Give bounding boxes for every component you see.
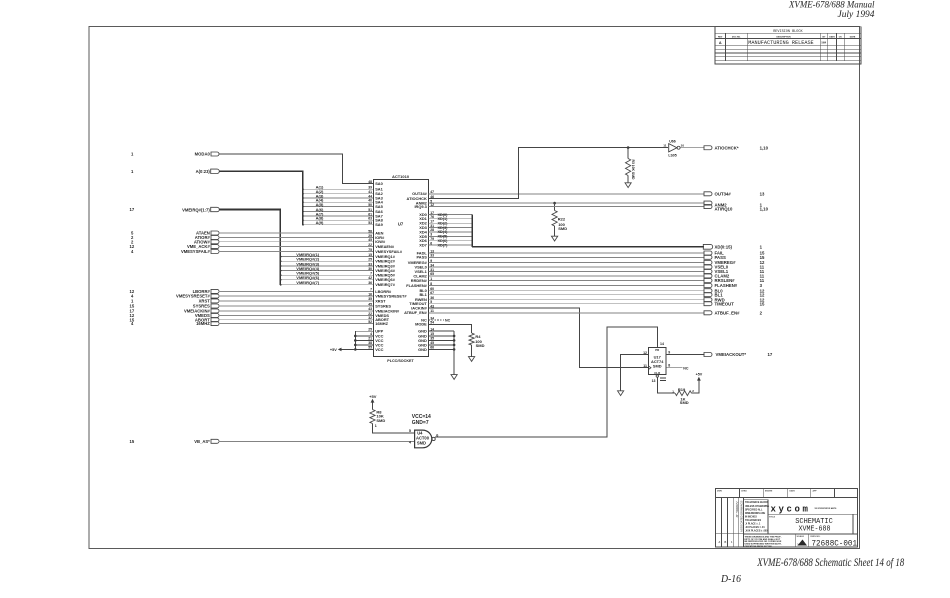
wire SYSRES xyxy=(218,305,373,307)
svg-text:1,10: 1,10 xyxy=(760,145,769,150)
U7 pin 36 RWEN xyxy=(415,296,434,302)
svg-text:11: 11 xyxy=(643,364,647,368)
U7 pin 54 MODE xyxy=(415,321,434,327)
wire A(5) xyxy=(302,202,373,208)
svg-text:SPECIFIED ALL: SPECIFIED ALL xyxy=(745,508,763,511)
svg-text:VMESYSFAIL#: VMESYSFAIL# xyxy=(181,249,211,254)
svg-text:TITLE: TITLE xyxy=(769,517,776,519)
svg-text:DESCRIPTION: DESCRIPTION xyxy=(776,36,791,38)
wire VSEL1 to port xyxy=(429,269,765,274)
svg-text:45: 45 xyxy=(368,238,372,242)
port VMEIACKIN# xyxy=(130,308,220,313)
svg-text:IN INCHES: IN INCHES xyxy=(745,516,757,518)
svg-text:1: 1 xyxy=(731,541,733,544)
U7 pin 52 16MHZ xyxy=(368,320,388,326)
svg-text:1: 1 xyxy=(760,244,763,249)
wire VMEREG# to port xyxy=(429,260,765,265)
wire VME_ACK# xyxy=(218,246,373,248)
wire VMEIRQ#(4) xyxy=(280,266,373,272)
wire VMEIRQ#(2) xyxy=(280,257,373,262)
U7 pin 39 SA1 xyxy=(368,186,383,192)
svg-text:15: 15 xyxy=(760,301,765,306)
wire ATIOW# xyxy=(218,241,373,243)
svg-text:22: 22 xyxy=(368,243,372,247)
ground below D input xyxy=(618,391,624,396)
wire VMEIRQ#(1) xyxy=(280,252,373,258)
U7 pin 17 XD2 xyxy=(419,220,434,226)
svg-text:XX.XX/XXXXXX 48/76: XX.XX/XXXXXX 48/76 xyxy=(815,507,838,510)
svg-text:1,10: 1,10 xyxy=(760,207,769,212)
svg-text:MODE: MODE xyxy=(415,322,427,327)
wire TIMEOUT to port xyxy=(429,301,765,306)
svg-text:XVME-678/688 Manual: XVME-678/688 Manual xyxy=(788,1,875,11)
resistor R8 pull-up xyxy=(370,409,386,428)
svg-text:1: 1 xyxy=(131,152,134,157)
wire MODE to R4 xyxy=(429,324,472,333)
wire A(6) xyxy=(302,207,373,213)
svg-text:1=1: 1=1 xyxy=(797,543,802,547)
svg-text:ATBUF_EN#: ATBUF_EN# xyxy=(404,310,427,315)
svg-text:IRQ9.3: IRQ9.3 xyxy=(414,204,427,209)
op IC U7 ACT1010 xyxy=(373,174,428,363)
wire VMEIRQ#(6) xyxy=(280,275,373,280)
svg-text:2: 2 xyxy=(760,310,763,315)
resistor R3 pulldown xyxy=(626,148,635,183)
svg-text:NC: NC xyxy=(683,366,689,370)
U7 pin 35 XRST xyxy=(368,297,386,303)
svg-text:DIMENSIONS ARE: DIMENSIONS ARE xyxy=(745,512,766,515)
svg-text:1: 1 xyxy=(131,169,134,174)
U7 pin 9 VMEREG# xyxy=(408,259,433,265)
U7 pin 25 UPP xyxy=(368,328,383,334)
U7 pin 33 PASS xyxy=(416,254,434,260)
U7 pin 31 VSEL1 xyxy=(414,268,434,274)
svg-text:SMD: SMD xyxy=(558,226,567,231)
U7 pin 7 VMEIRQ5# xyxy=(370,272,396,278)
U7 pin 25 VMEIRQ2# xyxy=(368,258,395,264)
svg-text:VMEIRQ#(1:7): VMEIRQ#(1:7) xyxy=(182,207,210,212)
U7 pin 45 IOW# xyxy=(368,238,386,244)
U7 pin 45 GND xyxy=(418,341,434,347)
svg-text:.XX PLACES ± .01: .XX PLACES ± .01 xyxy=(745,526,765,529)
svg-text:SMD: SMD xyxy=(376,418,385,423)
NAND gate U4 ACT00 xyxy=(409,429,438,448)
svg-text:XD7: XD7 xyxy=(419,242,427,247)
svg-text:51: 51 xyxy=(368,208,372,212)
wire OUT34# to port xyxy=(429,191,765,196)
svg-text:1: 1 xyxy=(375,424,377,428)
svg-text:16: 16 xyxy=(368,292,372,296)
svg-text:SMD: SMD xyxy=(653,363,662,368)
svg-text:17: 17 xyxy=(768,352,773,357)
svg-text:XD(0:15): XD(0:15) xyxy=(715,244,733,249)
wire U17 Q to port VMEIACKOUT* xyxy=(666,352,773,357)
svg-text:DWN: DWN xyxy=(717,491,722,493)
svg-text:DATE: DATE xyxy=(790,490,796,493)
port ABORT xyxy=(130,317,220,322)
wire VMEIRQ#(5) xyxy=(280,271,373,277)
svg-text:SMD: SMD xyxy=(680,400,689,405)
svg-text:B: B xyxy=(725,541,727,544)
svg-text:VCC=14: VCC=14 xyxy=(412,414,431,420)
svg-text:+5V: +5V xyxy=(369,394,377,399)
wire R8 to U4 input 5 xyxy=(373,424,415,434)
bus A(0:23) port and breakout xyxy=(131,169,303,225)
wire ATIOR# xyxy=(218,237,373,239)
svg-text:+5V: +5V xyxy=(696,373,703,377)
svg-text:10: 10 xyxy=(681,144,685,148)
U7 pin 63 SA8 xyxy=(368,217,383,223)
U7 pin 43 VMEIACKIN# xyxy=(368,307,400,313)
U7 pin 40 SA4 xyxy=(368,199,383,205)
svg-text:TOLERANCE BLOCK: TOLERANCE BLOCK xyxy=(745,501,769,504)
inverter U66 LS05 xyxy=(663,140,704,158)
svg-text:25: 25 xyxy=(368,258,372,262)
U7 pin 28 XD4 xyxy=(419,228,434,234)
U7 pin 12 IRQ9.3 xyxy=(414,203,434,209)
svg-text:13: 13 xyxy=(760,191,765,196)
svg-text:R19: R19 xyxy=(678,387,686,392)
bus XD(0:15) xyxy=(429,213,763,250)
U7 pin 45 SYSRES xyxy=(368,302,391,308)
svg-text:ACT1010: ACT1010 xyxy=(392,174,410,179)
svg-text:BY: BY xyxy=(822,36,826,38)
U7 pin 43 IACKIN# xyxy=(411,304,434,310)
U7 pin 30 VMEIRQ4# xyxy=(368,267,395,273)
wire VMESYSRESET# xyxy=(218,295,373,297)
wire ATIRQ10 to port xyxy=(429,205,769,212)
svg-text:42: 42 xyxy=(368,276,372,280)
svg-text:50: 50 xyxy=(368,203,372,207)
svg-text:REV: REV xyxy=(718,36,723,38)
svg-text:LS05: LS05 xyxy=(668,153,676,157)
svg-text:GND: GND xyxy=(418,347,427,352)
svg-text:XD(4): XD(4) xyxy=(438,230,449,234)
U7 pin 61 SA7 xyxy=(368,212,383,218)
wire VMEIACKIN# xyxy=(218,310,373,312)
U7 pin 31 XD3 xyxy=(419,224,434,230)
wire ATIOCHCK to inverter U66 xyxy=(429,146,668,198)
svg-text:+5V: +5V xyxy=(330,348,337,352)
ground below R3 xyxy=(625,183,631,188)
U7 pin 58 AEN xyxy=(368,229,383,235)
svg-text:A(9): A(9) xyxy=(316,220,324,225)
U7 pin 50 SA5 xyxy=(368,203,383,209)
svg-text:SA0: SA0 xyxy=(375,181,383,186)
U7 pin 55 VCC xyxy=(368,346,383,352)
svg-text:PLCC/SOCKET: PLCC/SOCKET xyxy=(387,359,414,363)
svg-text:72688C-D: 72688C-D xyxy=(734,501,738,517)
U7 pin 76 XD1 xyxy=(419,215,434,221)
svg-text:.X PLACE ± .1: .X PLACE ± .1 xyxy=(745,523,761,526)
svg-text:7: 7 xyxy=(370,272,372,276)
U7 pin 15 VMEIRQ1# xyxy=(368,253,395,259)
svg-text:33: 33 xyxy=(368,262,372,266)
wire BL1 to port xyxy=(429,292,765,297)
svg-text:XD(1): XD(1) xyxy=(438,217,449,221)
U7 pin 67 BL1 xyxy=(419,291,434,297)
U7 pin 17 XD0 xyxy=(419,211,434,217)
svg-text:16MHZ: 16MHZ xyxy=(196,321,210,326)
U7 pin 11 ATBUF_EN# xyxy=(404,309,434,315)
port ATIOW# xyxy=(131,239,219,244)
port VMEDS xyxy=(130,313,220,318)
svg-text:4: 4 xyxy=(131,249,134,254)
svg-text:ORIZATION FROM XYCOM.: ORIZATION FROM XYCOM. xyxy=(745,545,773,548)
U7 pin 22 VMEDS xyxy=(368,312,389,318)
svg-text:ATIRQ10: ATIRQ10 xyxy=(715,207,733,212)
wire BL0 to port xyxy=(429,288,765,293)
ground symbol below GND bracket xyxy=(451,375,457,380)
svg-text:53: 53 xyxy=(368,221,372,225)
wire A(4) xyxy=(302,198,373,204)
U7 pin 66 GND xyxy=(418,346,434,352)
wire U17 CLR to R19 xyxy=(657,377,675,393)
net tie marker xyxy=(660,378,666,380)
svg-text:ATBUF_EN#: ATBUF_EN# xyxy=(715,310,741,315)
wire FLASHEN# to port xyxy=(429,283,763,288)
U7 pin 3 XD5 xyxy=(419,233,432,239)
U7 pin 42 VMEIRQ6# xyxy=(368,276,395,282)
svg-text:A: A xyxy=(719,41,722,45)
svg-text:45: 45 xyxy=(368,302,372,306)
+5V supply to U7 VCC pins xyxy=(330,331,373,352)
U7 pin 34 VSEL0 xyxy=(414,263,434,269)
port VB_AS* xyxy=(130,439,220,444)
svg-text:14: 14 xyxy=(660,342,664,346)
wire LBORR# xyxy=(218,290,373,292)
svg-text:ASSOCIATED DRAWINGS: ASSOCIATED DRAWINGS xyxy=(740,500,744,532)
svg-text:XD(7): XD(7) xyxy=(438,243,449,247)
U7 pin 44 SA3 xyxy=(368,194,383,200)
svg-text:R3 10K SMD: R3 10K SMD xyxy=(631,160,635,181)
U7 pin 14 GND xyxy=(418,327,434,333)
port MODA0 and wire to U7 pin SA0 xyxy=(131,152,373,184)
U7 pin 5 ANM2 xyxy=(416,199,433,205)
svg-text:MANUFACTURING RELEASE: MANUFACTURING RELEASE xyxy=(748,40,813,46)
svg-text:.XXX PLACES ± .005: .XXX PLACES ± .005 xyxy=(745,530,768,533)
svg-text:15: 15 xyxy=(130,439,135,444)
wire RWD to port xyxy=(429,297,765,302)
svg-text:REVISION BLOCK: REVISION BLOCK xyxy=(773,30,803,34)
U7 pin 79 XD6 xyxy=(419,237,434,243)
port ATAEN xyxy=(131,230,219,235)
svg-text:U7: U7 xyxy=(398,222,404,227)
wire ANM2 to port xyxy=(429,201,763,207)
U7 pin 13 FADL xyxy=(417,249,435,255)
U7 pin 41 SA2 xyxy=(368,190,383,196)
port VME_ACK# xyxy=(130,244,220,249)
U17 Q-bar no connect xyxy=(666,366,689,370)
svg-text:SMD: SMD xyxy=(476,343,485,348)
svg-text:17: 17 xyxy=(130,207,135,212)
svg-text:DWG NO.: DWG NO. xyxy=(811,536,821,538)
svg-text:ENGRN: ENGRN xyxy=(765,491,773,493)
port VMESYSFAIL# xyxy=(131,249,219,254)
svg-text:TIMEOUT: TIMEOUT xyxy=(715,301,735,306)
U7 pin 29 IOR# xyxy=(368,234,385,240)
resistor R4 xyxy=(469,333,485,357)
svg-text:DATE: DATE xyxy=(829,35,835,38)
svg-text:SMD: SMD xyxy=(417,440,426,445)
wire VMEIRQ#(3) xyxy=(280,261,373,267)
svg-text:xycom: xycom xyxy=(771,505,811,515)
svg-text:52: 52 xyxy=(368,320,372,324)
wire A(3) xyxy=(302,193,373,199)
ground below R4 xyxy=(469,357,475,362)
U7 pin 22 VMEAEN# xyxy=(368,243,395,249)
U7 pin 33 VMEIRQ3# xyxy=(368,262,395,268)
svg-text:30: 30 xyxy=(368,267,372,271)
port VMESYSRESET# xyxy=(131,294,219,299)
svg-text:U66: U66 xyxy=(669,140,675,144)
svg-text:APP: APP xyxy=(813,490,818,493)
wire FAIL to port xyxy=(429,251,765,256)
wire U4 output to U17 preset xyxy=(435,327,657,437)
resistor R19 xyxy=(672,387,694,405)
title block xyxy=(716,489,858,547)
wire U17 D input to ground xyxy=(621,355,649,391)
svg-text:A: A xyxy=(719,541,721,544)
svg-text:CHKD: CHKD xyxy=(741,491,747,493)
wire VSEL0 to port xyxy=(429,265,765,270)
wire A(2) xyxy=(302,189,373,195)
svg-text:UNLESS OTHERWISE: UNLESS OTHERWISE xyxy=(745,506,770,508)
svg-text:5/94: 5/94 xyxy=(822,42,827,45)
U7 pin 75 VMESYSFAIL# xyxy=(368,248,403,254)
port SYSRES xyxy=(130,303,220,308)
U7 pin 4 VCC xyxy=(370,332,383,338)
svg-text:A(0:23): A(0:23) xyxy=(196,169,211,174)
U7 pin 7 LBORR# xyxy=(370,288,392,294)
U7 pin 65 CLAM2 xyxy=(413,272,434,278)
bus VMEIRQ#(1:7) port xyxy=(130,207,281,285)
port XRST xyxy=(131,298,219,303)
svg-text:58: 58 xyxy=(368,229,372,233)
svg-text:D-16: D-16 xyxy=(720,574,741,585)
wire ATAEN xyxy=(218,232,373,234)
U7 pin 38 VCC xyxy=(368,341,383,347)
svg-text:MODA0: MODA0 xyxy=(195,152,211,157)
svg-text:39: 39 xyxy=(368,186,372,190)
wire VMEIRQ#(7) xyxy=(280,280,373,285)
svg-text:5: 5 xyxy=(409,429,411,433)
svg-text:15: 15 xyxy=(368,253,372,257)
ground below R22 xyxy=(552,236,558,241)
revision block table xyxy=(715,27,861,64)
no-connect pin 34 xyxy=(429,319,451,323)
U7 pin 5 TIMEOUT xyxy=(409,300,432,306)
wire PASS to port xyxy=(429,255,765,260)
resistor R22 pulldown xyxy=(552,203,567,236)
U7 pin 47 OUT34# xyxy=(412,190,434,196)
svg-text:TOLERANCES: TOLERANCES xyxy=(745,519,761,522)
wire A(8) xyxy=(302,216,373,222)
svg-text:VMEIACKOUT*: VMEIACKOUT* xyxy=(716,352,747,357)
svg-text:NC: NC xyxy=(445,319,451,323)
svg-text:VB_AS*: VB_AS* xyxy=(194,439,210,444)
svg-text:DOC NO.: DOC NO. xyxy=(732,36,741,38)
U7 pin 21 VCC xyxy=(368,337,383,343)
wire R19 to +5V xyxy=(692,373,703,394)
U7 pin 16 VMESYSRESET# xyxy=(368,292,407,298)
svg-text:CK: CK xyxy=(839,36,843,38)
svg-text:VMEIRQ#(7): VMEIRQ#(7) xyxy=(296,280,320,285)
svg-text:11: 11 xyxy=(663,144,667,148)
wire VB_AS* to U4 input 4 xyxy=(218,440,414,442)
svg-text:43: 43 xyxy=(368,307,372,311)
wire A(1) xyxy=(302,185,373,191)
U7 pin 34 NC xyxy=(421,316,434,322)
wire A(9) xyxy=(302,220,373,226)
port LBORR# xyxy=(130,289,220,294)
svg-text:XVME-678/688 Schematic Sheet 1: XVME-678/688 Schematic Sheet 14 of 18 xyxy=(756,555,904,569)
wire XRST xyxy=(218,300,373,302)
svg-text:9: 9 xyxy=(668,351,670,355)
VCC/GND note for U4 xyxy=(412,414,431,426)
U7 pin 8 FLASHEN# xyxy=(406,282,432,288)
wire VMEDS xyxy=(218,315,373,317)
U7 pin 60 BL0 xyxy=(419,287,434,293)
svg-text:GND=7: GND=7 xyxy=(412,420,429,426)
svg-text:63: 63 xyxy=(368,217,372,221)
sheet border frame xyxy=(89,27,860,549)
svg-text:13: 13 xyxy=(652,379,656,383)
svg-text:OUT34#: OUT34# xyxy=(715,191,732,196)
svg-text:July 1994: July 1994 xyxy=(838,10,875,20)
svg-text:ATIOCHCK*: ATIOCHCK* xyxy=(715,145,739,150)
wire IACKIN# to U17 clock xyxy=(429,308,649,368)
svg-text:VCC: VCC xyxy=(375,347,383,352)
U7 pin 53 SA9 xyxy=(368,221,383,227)
port ATIOCHCK* xyxy=(704,145,769,150)
U7 pin 51 SA6 xyxy=(368,208,383,214)
svg-text:XVME-688: XVME-688 xyxy=(799,525,831,533)
ground bracket on U7 GND pins xyxy=(429,331,456,375)
svg-text:48: 48 xyxy=(368,180,372,184)
U7 pin 48 SA0 xyxy=(368,180,383,186)
wire 16MHZ xyxy=(218,323,373,325)
svg-text:SA9: SA9 xyxy=(375,222,383,227)
svg-text:75: 75 xyxy=(368,248,372,252)
svg-text:8: 8 xyxy=(668,364,670,368)
svg-text:35: 35 xyxy=(368,297,372,301)
U7 pin 1 RRDEN# xyxy=(411,277,433,283)
svg-text:DATE: DATE xyxy=(850,35,856,38)
svg-text:SCALE: SCALE xyxy=(797,535,805,538)
wire ABORT xyxy=(218,319,373,321)
+5V above R8 xyxy=(369,394,377,410)
svg-text:2: 2 xyxy=(692,389,694,393)
U7 pin 35 GND xyxy=(418,337,434,343)
svg-text:16MHZ: 16MHZ xyxy=(375,321,388,326)
U7 pin 46 ATIOCHCK xyxy=(407,195,435,201)
wire ATBUF_EN# to port xyxy=(429,310,763,315)
wire CLAM2 to port xyxy=(429,274,765,279)
port 16MHZ xyxy=(131,321,219,326)
svg-text:72688C-001: 72688C-001 xyxy=(812,541,858,549)
svg-text:36: 36 xyxy=(368,281,372,285)
U7 pin 15 GND xyxy=(418,332,434,338)
wire RRSLEN# to port xyxy=(429,278,765,283)
flip-flop U17 ACT74 xyxy=(643,342,670,383)
svg-text:7: 7 xyxy=(370,288,372,292)
wire VMESYSFAIL# xyxy=(218,251,373,253)
U7 pin 32 ABORT xyxy=(368,316,389,322)
U7 pin 6 XD7 xyxy=(419,241,432,247)
wire A(7) xyxy=(302,211,373,217)
svg-text:VMEIRQ7#: VMEIRQ7# xyxy=(375,282,396,287)
